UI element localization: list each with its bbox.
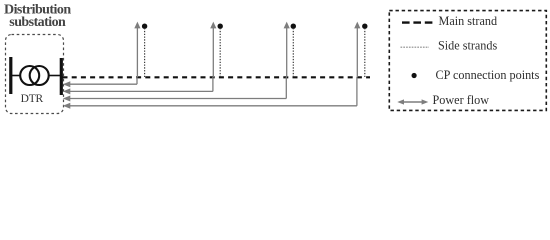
svg-text:Power flow: Power flow <box>433 93 490 107</box>
power flow wire F2 <box>63 77 213 94</box>
svg-text:Main strand: Main strand <box>439 14 498 28</box>
power flow wire F4 <box>63 77 357 109</box>
CP connection point P3 <box>291 24 296 29</box>
svg-text:substation: substation <box>9 15 66 30</box>
legend box <box>389 11 546 111</box>
svg-text:Side strands: Side strands <box>438 38 497 52</box>
power flow wire F3 <box>63 77 286 102</box>
side strand S3 (arrow up) <box>284 22 290 77</box>
side strand S2 (arrow up) <box>210 22 216 77</box>
CP line 1 (dotted) <box>144 29 146 77</box>
legend sample: power flow double arrow <box>397 99 428 104</box>
wire: transformer leads <box>11 75 21 77</box>
power flow wire F1 <box>63 77 137 87</box>
substation dashed box <box>6 35 64 114</box>
side strand S1 (arrow up) <box>134 22 140 77</box>
CP line 3 (dotted) <box>292 29 294 77</box>
svg-text:DTR: DTR <box>21 93 44 105</box>
transformer DTR <box>20 66 49 85</box>
CP connection point P2 <box>218 24 223 29</box>
legend sample: main strand <box>402 21 433 23</box>
busbar right <box>60 58 63 95</box>
svg-text:CP connection points: CP connection points <box>436 68 540 82</box>
legend sample: CP connection point <box>412 73 417 78</box>
CP connection point P1 <box>142 24 147 29</box>
CP line 2 (dotted) <box>219 29 221 77</box>
CP line 4 (dotted) <box>364 29 366 77</box>
busbar left <box>9 57 12 94</box>
legend sample: side strands <box>401 46 430 48</box>
main strand wire <box>63 76 371 78</box>
label: Distribution substation <box>4 2 71 30</box>
CP connection point P4 <box>362 24 367 29</box>
side strand S4 (arrow up) <box>354 22 360 77</box>
